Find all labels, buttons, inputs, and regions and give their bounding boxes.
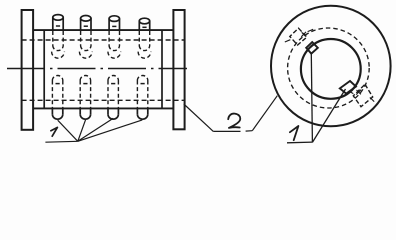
- center mark dash-dot upper-left: [285, 29, 313, 42]
- body top edge: [33, 29, 173, 31]
- label 1 right: [290, 126, 299, 140]
- outer circle (flange, part 2): [271, 6, 391, 127]
- lower pin 3: [108, 76, 118, 120]
- upper pin 2: [79, 15, 92, 58]
- hidden line upper: [22, 39, 185, 41]
- body bottom edge: [33, 107, 173, 109]
- flange left (part 2): [22, 10, 33, 130]
- label 2: [228, 114, 240, 128]
- hidden pin square lower-right: [353, 84, 372, 106]
- lower pin 4: [137, 75, 147, 119]
- body right end edge: [161, 30, 163, 108]
- centerline main axis: [7, 68, 187, 70]
- hidden line lower: [22, 99, 185, 101]
- hidden pin square upper-left: [290, 28, 307, 45]
- leader lines label 1 left: [45, 118, 142, 142]
- upper pin 4: [138, 18, 151, 58]
- leader lines label 1 right: [287, 54, 346, 143]
- upper pin 1: [52, 15, 65, 59]
- flange right (part 2): [173, 10, 184, 129]
- center mark dash-dot lower-right: [350, 90, 374, 102]
- body left end edge: [43, 30, 45, 108]
- upper pin 3: [108, 16, 121, 58]
- leader line label 2: [184, 96, 277, 132]
- notch square upper-left: [306, 42, 318, 54]
- lower pin 2: [80, 76, 90, 120]
- label 1 left: [51, 127, 58, 136]
- inner bore circle: [301, 39, 361, 99]
- lower pin 1: [52, 76, 62, 120]
- notch square lower-right: [340, 81, 356, 94]
- pitch dashed circle: [288, 28, 370, 108]
